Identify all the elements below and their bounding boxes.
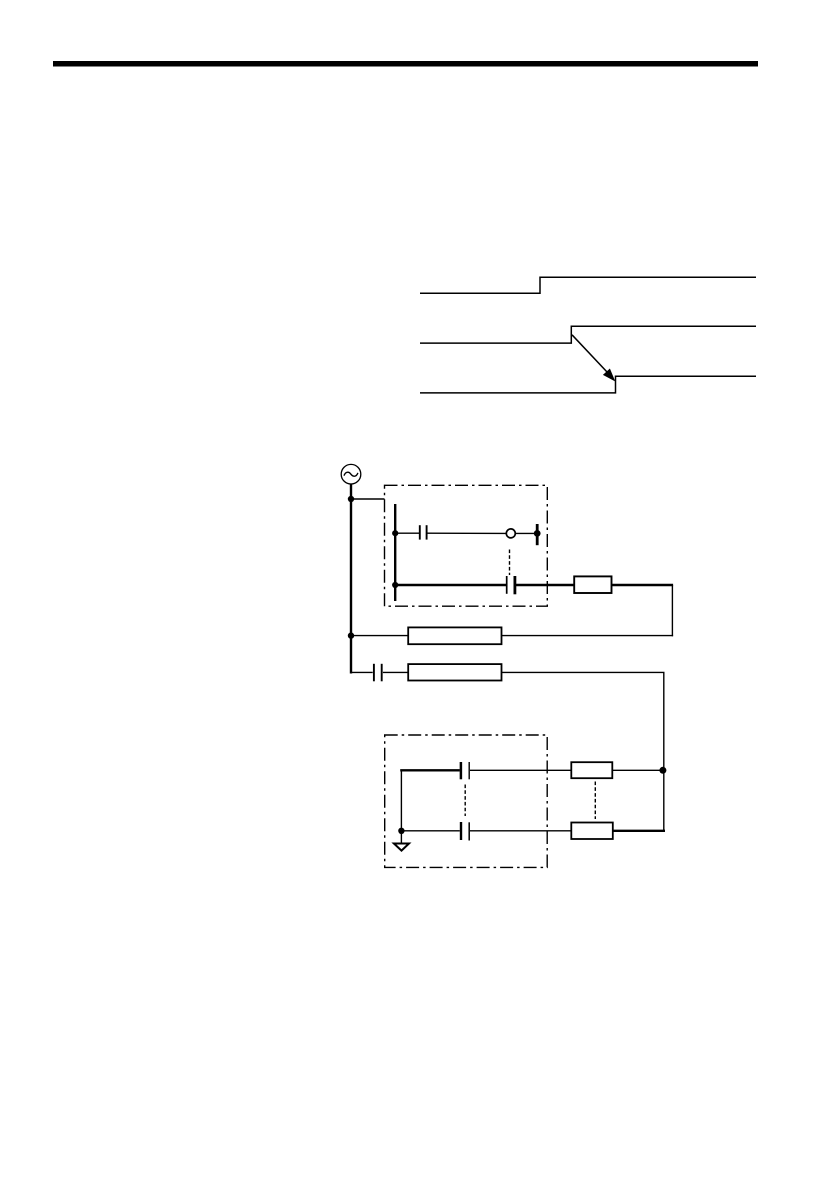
node: junction on left rail [348,632,354,638]
mechanical link (dashed) circle to capacitor [509,550,511,576]
ground [394,844,409,851]
wire: R5 to right vertical (thick) [613,830,665,832]
wire: bottom branch right [502,671,665,673]
capacitor C3 [460,762,463,779]
header rule [53,61,758,67]
wire: R4 to junction [612,769,664,771]
contact common bar (thick vertical) in box 1 [394,504,396,601]
mechanical link (dashed) between capacitors [464,785,466,817]
wire: box2 bottom branch left [401,830,459,832]
wire: ground stem [400,833,402,843]
resistor R5 [571,823,613,840]
wire: lower branch thick left [395,584,506,586]
wire: lower branch thick right [516,584,575,586]
wire: middle branch left [351,635,408,637]
resistor R3 [408,664,501,680]
timing signal 3 [420,376,756,393]
operating coil circle [506,529,515,538]
wire: R1 to right corner (thick) [612,584,674,586]
capacitor C2 [373,664,375,682]
node: ground junction [398,828,404,834]
mechanical link (dashed) between resistors [594,782,596,820]
contact C1 (capacitor-style plates) [419,525,421,539]
wire: box2 top branch thick [400,769,460,771]
arrow from signal 2 step to signal 3 step [572,335,608,373]
wire: bottom branch left [351,671,373,673]
contact bar (thick short vertical) [536,524,539,545]
node: right junction [659,767,666,774]
wire: upper branch middle [427,532,507,534]
wire: middle branch right [502,635,674,637]
resistor R4 [571,762,612,778]
AC source [341,464,361,484]
wire: C3 to R4 [470,769,571,771]
wire: C2 to R3 [383,671,408,673]
wire: box2 left vertical [400,770,402,831]
varistor box 2 (dash-dot) [385,735,548,867]
node: dot on contact bar [534,530,541,537]
node: lower branch junction [392,582,398,588]
node: upper branch junction [392,530,398,536]
timing signal 2 [420,326,756,343]
node: junction at source output [348,496,354,502]
resistor R2 [408,627,501,644]
wire: C4 to R5 [470,830,571,832]
wire: circle to contact bar [515,532,537,534]
wire: box2 right vertical [663,770,665,831]
wire: right vertical to lower box [663,672,665,770]
timing signal 1 [420,277,756,293]
wire: right vertical drop [671,585,673,636]
wire: junction to box 1 [351,498,385,500]
capacitor in box 1 lower branch [506,576,508,594]
resistor R1 [574,576,611,593]
wire: left rail (thick vertical) [350,484,352,674]
wire: upper branch left [395,532,419,534]
surge absorber box 1 (dash-dot) [385,485,548,606]
capacitor C4 [460,822,462,840]
